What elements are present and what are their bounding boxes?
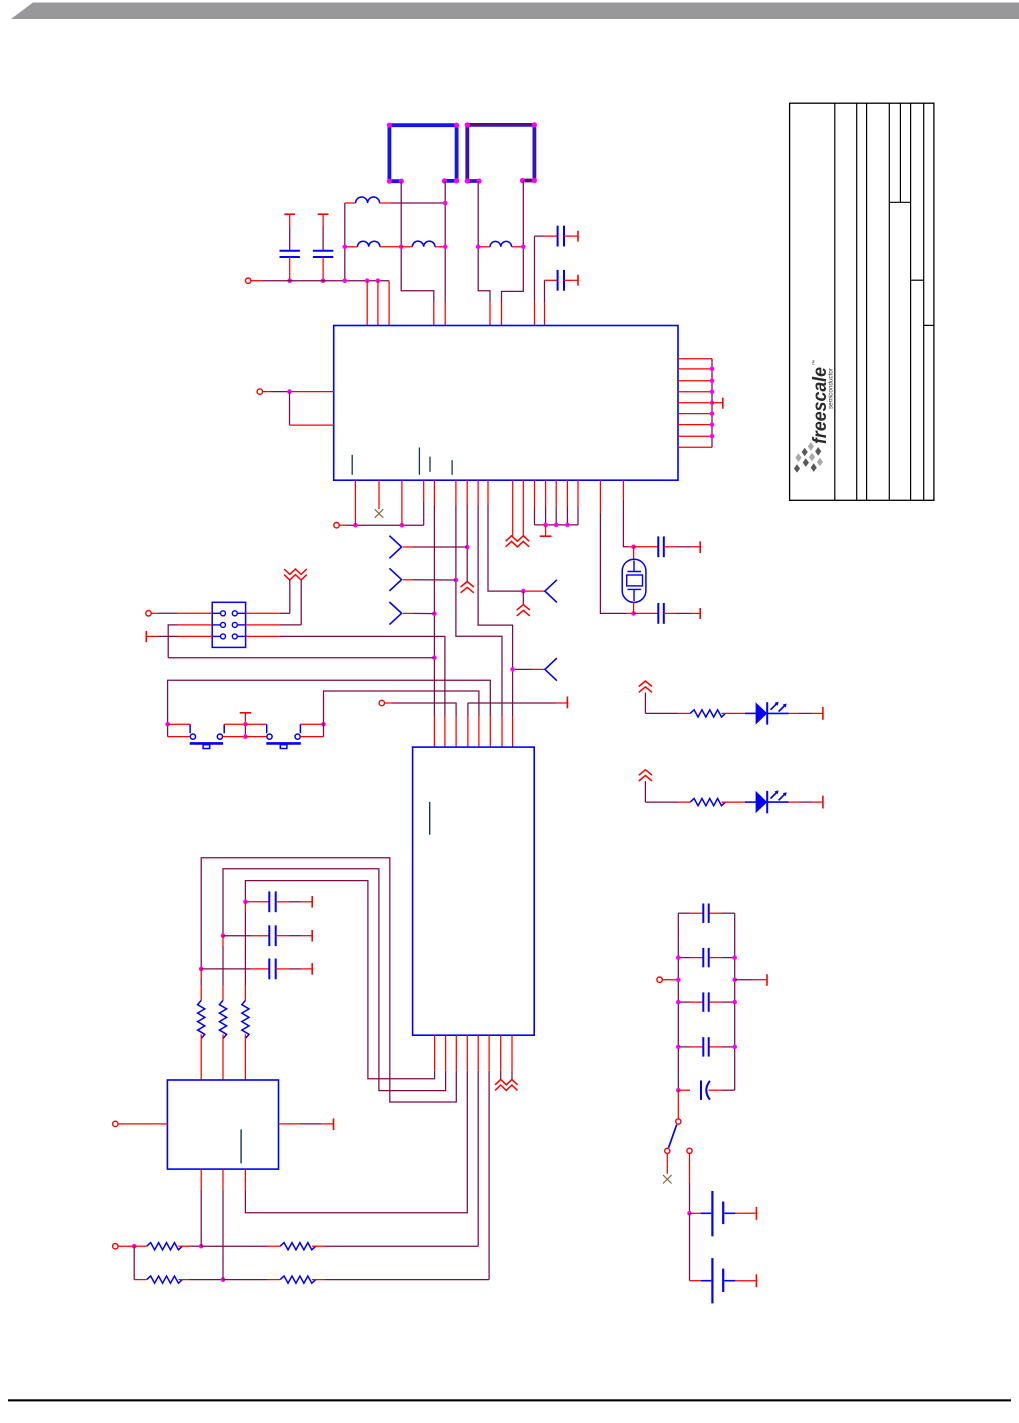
wire row2 R8 lead bbox=[134, 1279, 147, 1281]
wire U2 pin5b to row1 bbox=[477, 1035, 479, 1071]
offpage zigzag W3 bbox=[495, 1079, 517, 1090]
wire arrow A4 stub bbox=[515, 668, 532, 670]
inductor L2A leads bbox=[345, 246, 358, 248]
node T2 branch bbox=[287, 389, 292, 394]
wire U2 pin4b to U3 net bbox=[466, 1035, 468, 1071]
wire ant2-right pin stub bbox=[501, 302, 503, 326]
wire R3 to U3 bbox=[244, 1034, 246, 1080]
wire R4 to U3 bbox=[222, 1034, 224, 1080]
svg-text:™: ™ bbox=[812, 360, 818, 366]
wire SW2 right bottom lead bbox=[300, 736, 323, 738]
offpage chevron B bbox=[517, 605, 530, 616]
freescale emblem diamonds bbox=[795, 453, 801, 462]
terminal bar C7 bbox=[311, 896, 313, 908]
wire U2 zigzag pins bbox=[500, 1035, 502, 1071]
wire bus corner drop bbox=[388, 281, 390, 326]
U2 pin-number tick bbox=[429, 802, 431, 835]
wire row1 R6 lead bbox=[134, 1245, 147, 1247]
pushbutton SW1 bbox=[189, 724, 191, 733]
node L1-ant1R bbox=[443, 201, 448, 206]
no-connect X bbox=[375, 509, 384, 518]
U1 right rail stub bbox=[712, 402, 723, 404]
IC U2 body bbox=[413, 747, 535, 1035]
wire ground bus bbox=[535, 524, 579, 526]
node cap row2 bbox=[221, 933, 226, 938]
wire B2 out bbox=[735, 1280, 756, 1282]
capacitor C3 plates bbox=[557, 226, 559, 247]
wire LED2 net bbox=[644, 781, 646, 802]
node row2 U3 pin bbox=[221, 1277, 226, 1282]
node L3 right bbox=[521, 245, 526, 250]
node L2A left bbox=[343, 245, 348, 250]
resistor R2 bbox=[690, 799, 725, 806]
wire SW2 left top lead bbox=[245, 723, 266, 725]
wire T8 stub bbox=[662, 979, 678, 981]
wire J1 row1 left bbox=[151, 612, 158, 614]
node arrow3 junction bbox=[432, 611, 437, 616]
polarized capacitor C14 bbox=[676, 1088, 681, 1093]
antenna E2 corner junctions bbox=[465, 122, 470, 127]
wire loop U2pin3 net bbox=[455, 1035, 457, 1071]
no-connect X SW3 bbox=[663, 1175, 672, 1184]
terminal T9 (battery +) bbox=[687, 1148, 692, 1153]
wire T6 to U3 bbox=[118, 1123, 167, 1125]
terminal T3 (reset) bbox=[334, 523, 339, 528]
node cap row1 bbox=[243, 900, 248, 905]
ground bus junctions bbox=[543, 523, 548, 528]
node PB-left bbox=[165, 722, 170, 727]
wire arrow A1 bbox=[403, 546, 413, 548]
terminal bar C6 bbox=[699, 608, 701, 619]
wire U2 pin4 net bbox=[467, 716, 469, 747]
title block frame bbox=[790, 103, 934, 500]
pushbutton SW2 bbox=[266, 724, 268, 733]
wire PB-left bottom lead bbox=[168, 736, 190, 738]
resistor R9 bbox=[280, 1276, 316, 1283]
wire row1-row2 left link bbox=[133, 1246, 135, 1279]
offpage chevron LED1 bbox=[639, 681, 652, 692]
wire W2 left drop bbox=[289, 580, 291, 613]
wire arrow A3 bbox=[403, 612, 413, 614]
wire ant2-right drop bbox=[502, 181, 524, 303]
wire R6 to U3 node bbox=[178, 1245, 190, 1247]
wire U1 zigzag pin a bbox=[512, 480, 514, 536]
arrow port A5 bbox=[545, 580, 557, 603]
page banner (gray) bbox=[11, 3, 1019, 20]
title block row dividers bbox=[889, 201, 910, 203]
wire U3 pin2 bottom bbox=[222, 1169, 224, 1190]
node arrow1 junction bbox=[465, 545, 470, 550]
capacitor C5 plates bbox=[657, 536, 659, 557]
capacitor C3 left lead bbox=[535, 235, 545, 237]
node A5 junction bbox=[521, 589, 526, 594]
node xtal top bbox=[631, 545, 636, 550]
node arrow4 junction bbox=[510, 667, 515, 672]
offpage chevron LED2 bbox=[639, 770, 652, 781]
crystal Y1 top lead bbox=[633, 547, 635, 559]
resistor R1 bbox=[690, 710, 725, 717]
node PB center top bbox=[243, 722, 248, 727]
wire bus pin b stub bbox=[377, 281, 379, 326]
LED D2 bbox=[745, 801, 756, 803]
terminal T7 (row1) bbox=[113, 1244, 118, 1249]
antenna E2 overlay wire bbox=[467, 125, 534, 181]
capacitor C1 bottom lead bbox=[289, 257, 291, 281]
U1 right pin stubs bbox=[678, 358, 712, 360]
wire U1 pin jog to U2 pin8 bbox=[477, 480, 479, 505]
node L2A-ant1L bbox=[399, 245, 404, 250]
wire loop U2pin2 net bbox=[445, 1035, 447, 1071]
footer rule bbox=[8, 1399, 1011, 1401]
terminal T2 (U1 left) bbox=[257, 389, 262, 394]
wire row1 mid bbox=[201, 1245, 267, 1247]
inductor L1 leads bbox=[345, 202, 356, 204]
resistor R8 bbox=[147, 1276, 183, 1283]
capacitor C2 bottom lead bbox=[322, 257, 324, 281]
wire arrow A5 stub bbox=[526, 590, 545, 592]
wire cap row3 to R5 bbox=[200, 969, 202, 979]
cap bank junctions bbox=[676, 955, 681, 960]
wire U3 right pin bbox=[279, 1123, 301, 1125]
wire battery link bbox=[689, 1213, 691, 1280]
wire bus2 to U2 pin1 bbox=[168, 657, 434, 659]
capacitor C11 leads bbox=[678, 957, 690, 959]
switch SW3 throw bbox=[665, 1148, 670, 1153]
ground bar bbox=[540, 535, 552, 537]
wire L1-left vertical bbox=[344, 203, 346, 281]
wire U1 pin stub a bbox=[354, 480, 356, 525]
crystal Y1 bottom lead bbox=[633, 602, 635, 613]
wire reset bus corner up bbox=[423, 502, 425, 525]
capacitor C10 plates bbox=[702, 904, 704, 923]
U3 pin-number tick bbox=[240, 1129, 242, 1163]
wire ant1-right drop bbox=[444, 181, 446, 302]
wire row1 to U2 pin5 bbox=[312, 1245, 325, 1247]
capacitor C6 plates bbox=[657, 603, 659, 624]
node arrow2 junction bbox=[454, 578, 459, 583]
wire U1 xtal pin low bbox=[599, 480, 601, 513]
capacitor C5 leads bbox=[634, 546, 659, 548]
U1 right rail junctions bbox=[710, 367, 715, 372]
capacitor C9 lead bbox=[201, 968, 251, 970]
capacitor C12 leads bbox=[678, 1001, 690, 1003]
capacitor C12 plates bbox=[702, 992, 704, 1011]
node PB center bottom bbox=[243, 734, 248, 739]
node C2-bus bbox=[321, 278, 326, 283]
capacitor C4 right lead bbox=[564, 279, 578, 281]
LED D2 arrows bbox=[771, 791, 786, 800]
wire J1 row2 right bbox=[246, 624, 280, 626]
terminal bar C8 bbox=[311, 930, 313, 942]
wire R5 to U3 bbox=[200, 1034, 202, 1080]
wire RF input bus bbox=[251, 280, 262, 282]
terminal bar C4 bbox=[577, 275, 579, 286]
terminal T6 (U3 left) bbox=[113, 1121, 118, 1126]
wire C4 drop to U1 bbox=[544, 280, 546, 302]
arrow port A3 bbox=[389, 602, 401, 625]
capacitor C1 top rail stub bbox=[284, 213, 295, 215]
wire U1 right rail bbox=[711, 359, 713, 448]
resistor R4 bbox=[219, 1000, 226, 1038]
node reset-pin2 bbox=[400, 523, 405, 528]
capacitor C6 right lead bbox=[664, 612, 676, 614]
antenna E1 corner junctions bbox=[387, 123, 392, 128]
terminal T8 (cap bank) bbox=[657, 977, 662, 982]
LED D1 arrows bbox=[771, 703, 786, 712]
wire SW3 NC stub bbox=[666, 1154, 668, 1174]
node T8 rail bbox=[676, 977, 681, 982]
node L3 left bbox=[476, 245, 481, 250]
wire LED1 net bbox=[644, 692, 646, 713]
inductor L1 bbox=[356, 197, 380, 203]
inductor L2B bbox=[412, 241, 435, 247]
wire J1 row2 left bbox=[178, 624, 212, 626]
node C1-bus bbox=[287, 278, 292, 283]
wire U1 pin chevron net bbox=[466, 480, 468, 505]
terminal T4 (J1 row1) bbox=[146, 611, 151, 616]
title block column lines bbox=[834, 103, 836, 500]
wire T7 stub bbox=[118, 1245, 134, 1247]
terminal T5 bbox=[379, 700, 384, 705]
LED D1 bbox=[745, 712, 756, 714]
wire R2 to D2 bbox=[722, 801, 745, 803]
wire R1 to D1 bbox=[722, 712, 745, 714]
wire PB-left net bbox=[168, 680, 491, 736]
node xtal bottom bbox=[631, 611, 636, 616]
wire ant2-left pin stub bbox=[489, 302, 491, 326]
wire loop U2pin1 net bbox=[434, 1035, 436, 1071]
battery B1 bbox=[690, 1212, 701, 1214]
wire to switch bbox=[677, 1090, 679, 1119]
inductor L3 bbox=[490, 241, 512, 246]
wire J1 row3 left bbox=[146, 635, 158, 637]
wire T9 to battery bbox=[689, 1154, 691, 1183]
arrow port A1 bbox=[389, 536, 401, 559]
wire U1 xtal pin high bbox=[622, 480, 624, 500]
capacitor C7 right lead bbox=[276, 901, 289, 903]
resistor R6 bbox=[147, 1243, 183, 1250]
wire row2 to U2 pin6 bbox=[312, 1279, 325, 1281]
terminal bar B2 bbox=[755, 1274, 757, 1287]
capacitor C1 plates bbox=[280, 250, 300, 252]
wire arrow A2 bbox=[403, 579, 413, 581]
inductor L2B leads bbox=[401, 246, 412, 248]
wire B1 out bbox=[735, 1212, 756, 1214]
capacitor C2 top rail stub bbox=[318, 213, 329, 215]
node cap row3 bbox=[199, 967, 204, 972]
inductor L2A bbox=[358, 241, 380, 247]
wire PB-right net bbox=[324, 691, 479, 737]
wire PB center column bbox=[244, 713, 246, 725]
wire cap bank left rail bbox=[677, 913, 679, 1090]
wire cap row2 to R4 bbox=[222, 936, 224, 946]
resistor R3 bbox=[242, 1000, 249, 1038]
wire ant1-right pin stub bbox=[444, 302, 446, 326]
wire D1 out bbox=[789, 712, 799, 714]
wire U3 pin1 bottom bbox=[200, 1169, 202, 1190]
offpage zigzag W2 bbox=[284, 569, 307, 580]
node battery1 bbox=[687, 1211, 692, 1216]
antenna E1 loop bbox=[389, 125, 456, 181]
wire W2 right drop bbox=[300, 580, 302, 625]
wire ant1-left drop bbox=[401, 181, 434, 302]
wire U1 pin to U2 pin1 (long) bbox=[433, 480, 435, 505]
wire D2 out bbox=[789, 801, 799, 803]
battery B2 bbox=[690, 1280, 701, 1282]
wire chevron B drop bbox=[522, 591, 524, 604]
wire SW1 right top lead bbox=[224, 723, 245, 725]
terminal bar right rail bbox=[722, 398, 724, 409]
node bus-L1L bbox=[343, 278, 348, 283]
IC U3 body bbox=[167, 1080, 278, 1169]
wire U1 pin NC stub bbox=[378, 480, 380, 509]
offpage zigzag W1 bbox=[506, 536, 530, 547]
capacitor C5 right lead bbox=[664, 546, 676, 548]
freescale logo (rotated) bbox=[809, 360, 835, 444]
capacitor C13 plates bbox=[702, 1037, 704, 1056]
wire T2 branch down bbox=[289, 392, 291, 426]
node bus pin b bbox=[376, 278, 381, 283]
wire U1 zigzag pin b bbox=[522, 480, 524, 536]
switch SW3 blade bbox=[669, 1125, 677, 1148]
node reset-pin1 bbox=[353, 523, 358, 528]
U1 pin-number ticks bbox=[351, 455, 353, 475]
capacitor C9 plates bbox=[268, 959, 270, 980]
capacitor C7 lead bbox=[245, 901, 269, 903]
connector J1 pin circles bbox=[221, 611, 226, 616]
capacitor C11 plates bbox=[702, 948, 704, 967]
wire ant2-left drop bbox=[478, 181, 490, 302]
terminal bar U2 pin4 net bbox=[566, 697, 568, 709]
offpage chevron A bbox=[461, 582, 474, 593]
terminal bar D1 bbox=[822, 707, 824, 720]
wire T2 to U1 bbox=[263, 391, 272, 393]
wire SW2 right top lead bbox=[300, 723, 323, 725]
connector J1 body bbox=[212, 602, 245, 647]
switch SW3 pole bbox=[676, 1119, 681, 1124]
terminal bar B1 bbox=[755, 1207, 757, 1220]
resistor R5 bbox=[198, 1000, 205, 1038]
antenna E2 loop bbox=[467, 125, 534, 181]
terminal bar C9 bbox=[311, 963, 313, 975]
capacitor C4 plates bbox=[557, 270, 559, 291]
terminal bar J1 row3 bbox=[145, 631, 147, 642]
node cap bank out bbox=[732, 977, 737, 982]
wire J1 row1 right bbox=[246, 612, 280, 614]
ground stub bbox=[545, 525, 547, 536]
capacitor C3 right lead bbox=[564, 235, 578, 237]
svg-text:semiconductor: semiconductor bbox=[828, 367, 835, 409]
inductor L3 leads bbox=[478, 246, 490, 248]
terminal bar cap bank bbox=[766, 974, 768, 986]
terminal T1 bbox=[246, 278, 251, 283]
capacitor C10 leads bbox=[678, 912, 690, 914]
capacitor C7 plates bbox=[268, 891, 270, 912]
capacitor C8 lead bbox=[223, 935, 251, 937]
capacitor C2 plates bbox=[313, 250, 333, 252]
crystal Y1 bbox=[622, 559, 646, 602]
IC U1 body bbox=[334, 326, 678, 481]
arrow port A2 bbox=[389, 568, 401, 591]
wire J1 row3 right to U2 pin2 bbox=[246, 635, 280, 637]
capacitor C8 right lead bbox=[276, 935, 289, 937]
wire bus pin a stub bbox=[366, 281, 368, 326]
node row1 left bbox=[132, 1244, 137, 1249]
wire cap bank right rail bbox=[734, 913, 736, 1090]
wire R8 to U3 node bbox=[178, 1279, 190, 1281]
wire U1 pin jog to U2 pin7 bbox=[455, 480, 457, 505]
wire U2 pin6b to row2 bbox=[488, 1035, 490, 1071]
node bus pin a bbox=[365, 278, 370, 283]
wire cap row1 to R3 bbox=[244, 902, 246, 912]
wire row2 mid bbox=[223, 1279, 267, 1281]
capacitor C8 plates bbox=[268, 925, 270, 946]
power bar PB center bbox=[240, 712, 252, 714]
wire reset bus bbox=[339, 524, 347, 526]
wire SW2 left bottom lead bbox=[245, 736, 267, 738]
terminal bar U3 right bbox=[333, 1118, 335, 1130]
wire C3 drop to U1 bbox=[534, 236, 536, 300]
capacitor C6 leads bbox=[634, 612, 659, 614]
node bus2 junction bbox=[432, 655, 437, 660]
terminal bar D2 bbox=[822, 796, 824, 809]
wire ant1-left pin stub bbox=[433, 302, 435, 326]
node row1 U3 pin bbox=[199, 1244, 204, 1249]
node PB-right bbox=[321, 722, 326, 727]
wire U1 pin stub b bbox=[401, 480, 403, 525]
capacitor C4 left lead bbox=[545, 279, 558, 281]
terminal bar C3 bbox=[577, 231, 579, 242]
U1 ground pins bbox=[534, 480, 536, 507]
node L2B-ant1R bbox=[443, 245, 448, 250]
terminal bar C5 bbox=[699, 541, 701, 553]
wire cap bank out bbox=[735, 979, 752, 981]
arrow port A4 bbox=[545, 658, 557, 681]
wire U1 pin to arrow A5 bbox=[487, 480, 489, 505]
capacitor C13 leads bbox=[678, 1046, 690, 1048]
resistor R7 bbox=[280, 1243, 316, 1250]
wire T5 to U2 pin3 bbox=[385, 702, 393, 704]
wire PB-left top lead bbox=[168, 723, 191, 725]
wire SW1 right bottom lead bbox=[223, 736, 246, 738]
capacitor C9 right lead bbox=[276, 968, 289, 970]
